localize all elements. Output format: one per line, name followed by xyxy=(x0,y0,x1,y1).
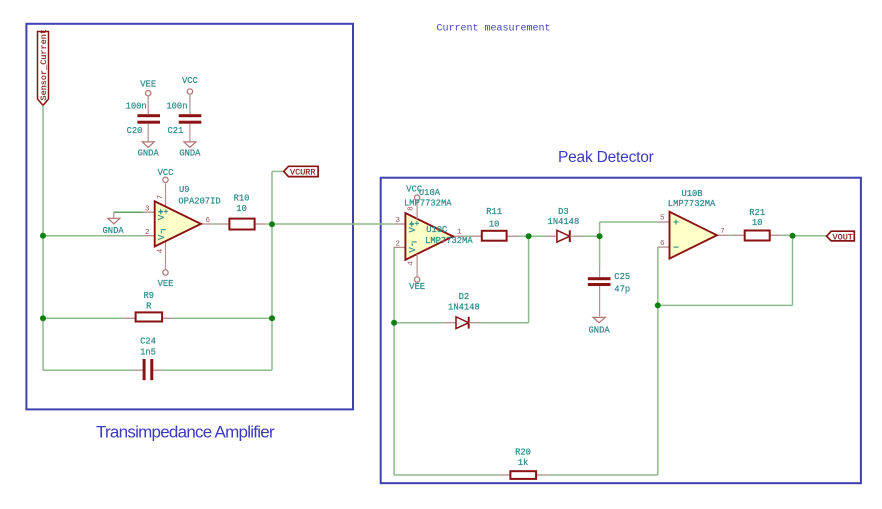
svg-text:1n5: 1n5 xyxy=(140,348,156,358)
svg-text:GNDA: GNDA xyxy=(589,325,611,335)
wire bottom loop to R20 xyxy=(394,474,499,476)
svg-text:1k: 1k xyxy=(518,458,529,468)
box Peak Detector xyxy=(381,178,861,484)
wire node C down to C25 xyxy=(599,236,601,265)
wire U9 pin2 xyxy=(43,235,143,237)
svg-text:GNDA: GNDA xyxy=(138,149,160,159)
svg-text:Peak Detector: Peak Detector xyxy=(558,149,654,166)
wire C24 bottom right segment xyxy=(153,369,161,371)
wire R21 to node F xyxy=(770,234,782,236)
junction node F at R21 output xyxy=(790,233,796,239)
junction at R9 right xyxy=(269,315,275,321)
junction at U9 pin2 input xyxy=(40,233,46,239)
svg-text:C20: C20 xyxy=(127,126,143,136)
svg-text:100n: 100n xyxy=(126,101,147,111)
svg-text:VCC: VCC xyxy=(158,168,174,178)
op-amp U9 xyxy=(143,185,221,253)
wire D3 cathode to node C xyxy=(582,235,600,237)
hierarchical label VOUT xyxy=(827,231,855,242)
op-amp U10B xyxy=(658,189,729,259)
svg-text:7: 7 xyxy=(720,228,725,236)
wire VCURR stub xyxy=(272,170,284,172)
junction node B after R11 xyxy=(526,233,532,239)
svg-text:10: 10 xyxy=(752,218,763,228)
svg-text:R21: R21 xyxy=(749,208,765,218)
svg-text:10: 10 xyxy=(489,220,500,230)
svg-text:100n: 100n xyxy=(166,101,187,111)
svg-text:VEE: VEE xyxy=(158,279,174,289)
op-amp U10A xyxy=(394,184,474,292)
svg-text:C25: C25 xyxy=(614,272,630,282)
wire node C up xyxy=(599,222,601,236)
svg-text:LMP7732MA: LMP7732MA xyxy=(425,236,473,246)
svg-text:5: 5 xyxy=(660,215,665,223)
svg-text:D3: D3 xyxy=(558,207,569,217)
svg-text:LMP7732MA: LMP7732MA xyxy=(668,199,716,209)
svg-text:VEE: VEE xyxy=(409,282,425,292)
svg-text:4: 4 xyxy=(408,261,416,266)
wire VCURR vertical xyxy=(271,171,273,318)
svg-text:GNDA: GNDA xyxy=(103,226,125,236)
wire node B to D3 anode xyxy=(529,235,546,237)
junction node A at R10 output xyxy=(269,221,275,227)
wire R10 to junction xyxy=(255,223,267,225)
diode D3 xyxy=(545,207,581,242)
svg-text:R9: R9 xyxy=(144,291,155,301)
svg-text:VCC: VCC xyxy=(182,76,198,86)
svg-text:10: 10 xyxy=(236,204,247,214)
svg-text:1N4148: 1N4148 xyxy=(448,303,480,313)
hierarchical label VCURR xyxy=(284,166,318,177)
resistor R9 xyxy=(136,291,163,322)
svg-text:U9: U9 xyxy=(179,185,190,195)
wire D2 feedback up to node B xyxy=(528,236,530,323)
svg-text:R11: R11 xyxy=(486,207,502,217)
junction node D at D2 anode xyxy=(391,320,397,326)
ground GNDA at C25 xyxy=(589,317,611,335)
svg-text:2: 2 xyxy=(145,229,150,237)
wire feedback vertical at R21 output xyxy=(792,236,794,306)
svg-text:R: R xyxy=(146,302,152,312)
resistor R10 xyxy=(229,194,254,230)
box Transimpedance Amplifier xyxy=(26,24,353,410)
ground GNDA at U9 pin3 xyxy=(103,212,125,236)
wire node D to D2 anode xyxy=(394,322,444,324)
svg-text:Sensor_Current: Sensor_Current xyxy=(39,29,49,100)
wire U10A output to R11 xyxy=(465,235,471,237)
wire node F to VOUT xyxy=(793,235,827,237)
svg-text:3: 3 xyxy=(145,206,150,214)
svg-text:Transimpedance Amplifier: Transimpedance Amplifier xyxy=(96,423,275,442)
wire right vertical C24 to R9 xyxy=(271,318,273,370)
svg-text:LMP7732MA: LMP7732MA xyxy=(404,199,452,209)
svg-text:OPA207ID: OPA207ID xyxy=(178,196,220,206)
capacitor C21 xyxy=(166,76,201,159)
capacitor C20 xyxy=(126,80,160,159)
svg-text:U10B: U10B xyxy=(681,189,702,199)
svg-text:2: 2 xyxy=(395,240,400,248)
svg-text:V+: V+ xyxy=(408,222,418,233)
wire R11 to node B xyxy=(507,235,519,237)
resistor R21 xyxy=(745,208,770,240)
wire U10B pin6 corner xyxy=(657,246,659,248)
wire to U10B pin5 xyxy=(600,221,658,223)
diode D2 xyxy=(444,292,480,329)
svg-text:6: 6 xyxy=(206,217,211,225)
wire R9 right xyxy=(162,317,174,319)
svg-text:C21: C21 xyxy=(168,126,184,136)
svg-text:47p: 47p xyxy=(614,284,630,294)
svg-text:GNDA: GNDA xyxy=(179,149,201,159)
svg-text:R20: R20 xyxy=(515,447,531,457)
capacitor C25 xyxy=(588,266,630,317)
wire U9 output to R10 xyxy=(213,223,218,225)
svg-text:4: 4 xyxy=(157,248,165,253)
junction node C after D3 xyxy=(597,233,603,239)
wire node E to feedback right xyxy=(658,304,793,306)
wire left vertical from Sensor_Current xyxy=(42,105,44,370)
svg-text:Current measurement: Current measurement xyxy=(437,23,551,34)
wire D2 cathode right xyxy=(480,322,528,324)
wire R9 left xyxy=(43,317,124,319)
wire U10B output to R21 xyxy=(729,234,733,236)
hierarchical label Sensor_Current xyxy=(38,29,49,105)
svg-text:VEE: VEE xyxy=(140,80,156,90)
wire node D down to R20 loop xyxy=(393,323,395,475)
junction node E in feedback xyxy=(655,302,661,308)
svg-text:V-: V- xyxy=(408,242,418,253)
svg-text:7: 7 xyxy=(157,195,165,200)
svg-text:V+: V+ xyxy=(157,209,167,220)
svg-text:U10A: U10A xyxy=(419,188,441,198)
resistor R20 xyxy=(510,447,536,479)
resistor R11 xyxy=(482,207,507,241)
power VCC U9 xyxy=(158,168,174,207)
wire U10A pin2 corner xyxy=(393,246,395,248)
svg-text:1N4148: 1N4148 xyxy=(548,217,580,227)
svg-text:VOUT: VOUT xyxy=(833,232,853,242)
svg-text:C24: C24 xyxy=(140,337,156,347)
junction at R9 left xyxy=(40,315,46,321)
wire U10A pin2 down xyxy=(393,247,395,322)
capacitor C24 xyxy=(140,337,156,381)
svg-text:U10C: U10C xyxy=(426,225,447,235)
svg-text:V-: V- xyxy=(157,229,167,240)
svg-text:D2: D2 xyxy=(459,292,470,302)
wire node E up to U10B pin6 xyxy=(657,247,659,305)
wire GNDA to U9 pin3 xyxy=(114,211,143,213)
wire bottom loop up to node E xyxy=(657,305,659,475)
svg-text:VCURR: VCURR xyxy=(290,168,316,178)
svg-text:6: 6 xyxy=(660,240,665,248)
wire C24 bottom left segment xyxy=(43,369,135,371)
wire R20 right xyxy=(536,474,548,476)
svg-text:R10: R10 xyxy=(234,194,250,204)
power VEE U9 xyxy=(158,241,174,289)
wire junction to U10A pin3 xyxy=(272,223,394,225)
svg-text:3: 3 xyxy=(395,217,400,225)
